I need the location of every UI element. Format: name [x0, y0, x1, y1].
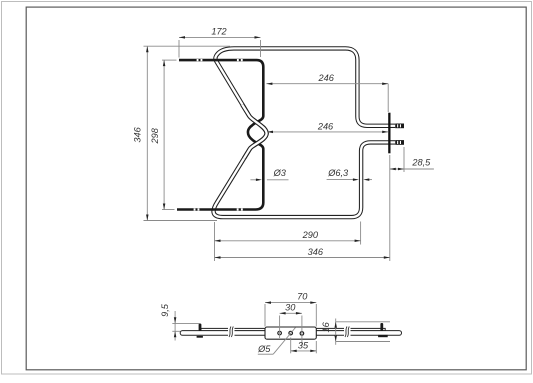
svg-text:172: 172	[211, 26, 226, 36]
dimension 30	[280, 313, 302, 345]
dimension 298 vertical (left)	[162, 60, 177, 209]
svg-text:246: 246	[317, 122, 334, 132]
dimension 35	[291, 338, 317, 354]
clip marks on bottom bar	[194, 208, 243, 210]
side view upper tube row	[201, 328, 385, 330]
svg-text:246: 246	[318, 73, 335, 83]
dimension 16	[336, 319, 390, 345]
label Ø6,3 with leader	[327, 179, 372, 181]
side view left tab	[197, 324, 203, 338]
side view break left	[228, 327, 235, 338]
hole 1	[278, 331, 282, 335]
clip marks on top bar	[197, 59, 243, 61]
side view right tab	[378, 323, 388, 337]
label Ø3 with leader	[250, 179, 288, 181]
hole 2 (Ø5)	[289, 331, 293, 335]
svg-text:35: 35	[298, 340, 309, 350]
support wire Ø3 with top and bottom bars	[177, 60, 263, 209]
dimension 290	[215, 222, 361, 262]
svg-text:298: 298	[150, 127, 160, 144]
dimension 172 (top bar length)	[179, 37, 261, 57]
side view main tube row	[180, 331, 401, 336]
label Ø5 with leader	[273, 328, 295, 355]
hole 3	[300, 332, 304, 336]
heating tube Ø6.3 main path	[214, 48, 390, 217]
svg-text:16: 16	[321, 321, 331, 332]
tube crossing overlay (tube passes over wire)	[242, 105, 266, 159]
svg-text:Ø3: Ø3	[273, 168, 287, 178]
dimension 28,5	[390, 147, 434, 261]
dimension 346 vertical (left)	[144, 46, 231, 220]
dimension 70	[265, 303, 316, 327]
side view break right	[344, 327, 351, 338]
svg-text:9,5: 9,5	[160, 303, 170, 317]
dimension 246 lower	[267, 131, 388, 133]
terminal bracket plate	[388, 113, 390, 154]
dimension 346 horizontal	[215, 257, 390, 259]
svg-text:Ø5: Ø5	[257, 344, 271, 354]
svg-text:346: 346	[133, 126, 143, 142]
svg-text:28,5: 28,5	[411, 157, 431, 167]
svg-text:70: 70	[297, 292, 308, 302]
terminal pin upper	[391, 124, 405, 129]
dimension 246 upper	[266, 84, 388, 112]
side view bracket block	[265, 327, 316, 339]
dimension 9,5	[172, 311, 200, 341]
svg-text:30: 30	[285, 303, 296, 313]
svg-text:290: 290	[302, 230, 319, 240]
svg-text:346: 346	[308, 247, 324, 257]
svg-text:Ø6,3: Ø6,3	[327, 168, 349, 178]
terminal pin lower	[391, 140, 405, 145]
